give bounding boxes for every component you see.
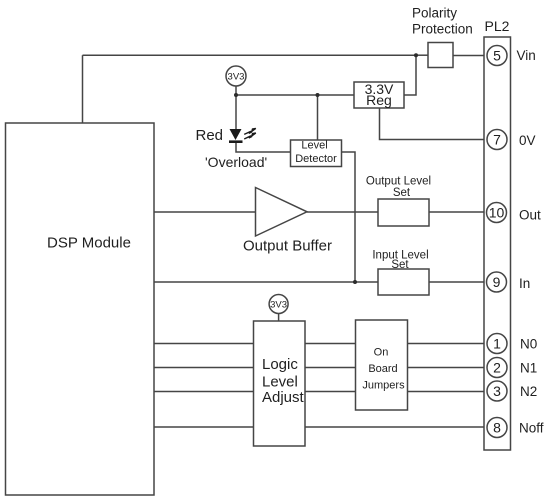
node junction 3V3 rail / LED — [234, 93, 238, 97]
wire 3V3 top circle drop — [235, 86, 237, 95]
svg-text:Polarity: Polarity — [412, 6, 457, 21]
pin 9 — [487, 272, 507, 292]
svg-text:Red: Red — [196, 127, 224, 144]
wire node to 3.3V reg input — [404, 55, 416, 95]
pin 2 — [487, 358, 507, 378]
pin 8 — [487, 418, 507, 438]
svg-text:9: 9 — [493, 274, 501, 290]
pin 5 — [487, 46, 507, 66]
wire N2 line — [154, 391, 487, 393]
polarity protection block — [428, 43, 453, 68]
svg-text:In: In — [519, 276, 530, 291]
wire N0 line — [154, 343, 487, 345]
svg-text:Set: Set — [391, 259, 409, 271]
wire reg output to pin 7 — [380, 108, 488, 140]
svg-text:N0: N0 — [520, 337, 537, 352]
svg-text:8: 8 — [493, 419, 501, 435]
node junction 3V3 rail / level detector — [316, 93, 320, 97]
svg-text:Output Level: Output Level — [366, 176, 431, 188]
wire DSP top to top rail — [82, 55, 84, 123]
wire level detector to In line — [342, 152, 356, 282]
wire DSP to output buffer — [154, 211, 256, 213]
svg-text:0V: 0V — [519, 133, 536, 148]
wire polarity protection to pin 5 — [453, 55, 487, 57]
svg-text:10: 10 — [489, 204, 505, 220]
LED light arrows — [244, 128, 256, 139]
pin 7 — [487, 130, 507, 150]
output buffer amplifier — [256, 188, 308, 237]
svg-text:1: 1 — [493, 335, 501, 351]
svg-text:'Overload': 'Overload' — [205, 154, 267, 170]
3.3V regulator block — [354, 82, 404, 108]
logic level adjust block — [254, 321, 306, 446]
pin 10 — [487, 203, 507, 223]
svg-text:Level: Level — [262, 374, 298, 391]
output level set block — [378, 199, 429, 226]
svg-text:Set: Set — [393, 187, 411, 199]
svg-text:Vin: Vin — [517, 48, 536, 63]
svg-text:N2: N2 — [520, 384, 537, 399]
svg-text:Adjust: Adjust — [262, 389, 305, 406]
svg-text:Out: Out — [519, 208, 541, 223]
svg-text:Detector: Detector — [295, 153, 337, 165]
wire 3V3 rail to reg — [236, 94, 354, 96]
svg-text:5: 5 — [493, 47, 501, 63]
svg-text:Board: Board — [368, 363, 397, 375]
svg-text:N1: N1 — [520, 361, 537, 376]
input level set block — [378, 269, 429, 295]
power symbol 3V3 top — [226, 66, 246, 86]
node junction In line — [353, 280, 357, 284]
svg-text:3V3: 3V3 — [228, 72, 245, 83]
pin 1 — [487, 334, 507, 354]
wire rail to LED anode — [235, 95, 237, 129]
svg-text:On: On — [374, 347, 389, 359]
pin 3 — [487, 381, 507, 401]
power symbol 3V3 lower — [269, 295, 288, 314]
LED D1 red — [229, 129, 243, 142]
svg-text:Level: Level — [301, 140, 327, 152]
svg-text:Jumpers: Jumpers — [362, 380, 405, 392]
svg-text:Noff: Noff — [519, 421, 544, 436]
wire top rail — [83, 54, 417, 56]
level detector block — [291, 140, 342, 167]
svg-text:2: 2 — [493, 359, 501, 375]
wire rail to polarity protection — [416, 54, 428, 56]
wire rail to level detector top — [317, 95, 319, 140]
connector PL2 strip — [484, 37, 511, 450]
svg-text:3: 3 — [493, 383, 501, 399]
node junction top rail — [414, 53, 418, 57]
wire output buffer to pin 10 — [307, 211, 487, 213]
on board jumpers block — [356, 320, 408, 410]
wire In line DSP to pin 9 — [154, 281, 487, 283]
svg-text:3V3: 3V3 — [270, 300, 287, 311]
svg-text:DSP Module: DSP Module — [47, 235, 131, 252]
svg-text:PL2: PL2 — [485, 18, 510, 34]
wire 3V3 bottom circle to logic level adjust — [278, 314, 280, 322]
DSP module U1 — [6, 123, 155, 495]
svg-text:Logic: Logic — [262, 356, 298, 373]
wire Noff line — [154, 426, 487, 428]
svg-text:Reg: Reg — [366, 92, 392, 108]
wire N1 line — [154, 367, 487, 369]
svg-text:Protection: Protection — [412, 22, 473, 37]
svg-text:7: 7 — [493, 131, 501, 147]
wire LED cathode to level detector — [236, 143, 291, 153]
svg-text:Output Buffer: Output Buffer — [243, 238, 332, 255]
